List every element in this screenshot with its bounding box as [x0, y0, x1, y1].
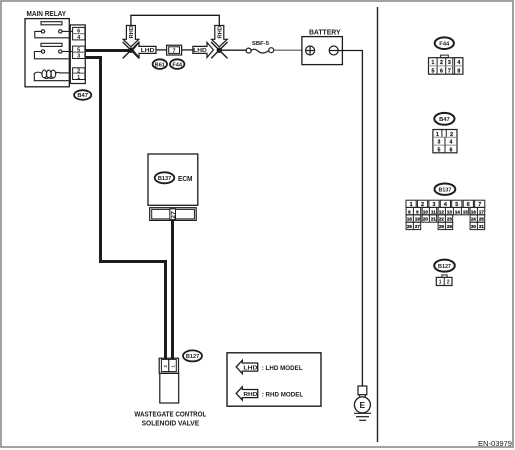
- svg-text:15: 15: [463, 209, 469, 214]
- svg-text:1: 1: [77, 75, 80, 81]
- wire upper-right terminal to pin 6: [62, 30, 73, 32]
- svg-text:13: 13: [447, 209, 453, 214]
- svg-text:24: 24: [471, 217, 477, 222]
- svg-text:2: 2: [77, 69, 80, 75]
- X crossing at junction B: [211, 42, 227, 58]
- pin cell 6: [73, 27, 85, 33]
- connector view B137 row1 cells 1-7: [406, 200, 485, 207]
- connector label oval B61: [153, 59, 167, 69]
- connector view F44 label oval: [435, 37, 454, 49]
- svg-text:2: 2: [447, 280, 450, 286]
- svg-text:4: 4: [457, 60, 460, 66]
- fusible link SBF-5: [246, 48, 251, 53]
- svg-text:19: 19: [415, 217, 421, 222]
- battery minus terminal: [329, 46, 338, 55]
- connector pin cell 2: [161, 359, 168, 371]
- relay contact bar (lower): [41, 43, 62, 46]
- connector view B127 label oval: [434, 260, 455, 272]
- svg-text:E: E: [360, 400, 366, 410]
- svg-text:17: 17: [479, 209, 485, 214]
- svg-text:F44: F44: [172, 62, 183, 68]
- svg-text:29: 29: [447, 224, 453, 229]
- svg-text:23: 23: [447, 217, 453, 222]
- svg-text:F44: F44: [439, 42, 450, 48]
- svg-text:28: 28: [439, 224, 445, 229]
- wire lower-right terminal to pin 5: [62, 51, 73, 53]
- svg-text:RHD: RHD: [129, 26, 135, 39]
- RHD arrow (right): [212, 26, 228, 47]
- svg-text:B127: B127: [186, 354, 199, 360]
- svg-text:10: 10: [423, 209, 429, 214]
- svg-text:3: 3: [438, 140, 441, 146]
- pin cell 1: [73, 73, 85, 79]
- X crossing at junction A: [123, 42, 139, 58]
- svg-text:B47: B47: [439, 117, 450, 123]
- svg-text:WASTEGATE CONTROL: WASTEGATE CONTROL: [134, 412, 207, 419]
- relay contact terminal circle (lower left): [41, 50, 44, 53]
- svg-text:B137: B137: [438, 187, 451, 193]
- B47 pin numbers 1-6: [436, 132, 453, 154]
- svg-text:5: 5: [431, 69, 434, 75]
- wire battery minus to ground: [338, 51, 362, 387]
- svg-text:30: 30: [471, 224, 477, 229]
- svg-text:7: 7: [172, 48, 175, 54]
- svg-text:LHD: LHD: [141, 48, 155, 54]
- svg-text:RHD: RHD: [218, 26, 224, 39]
- connector label oval B47: [74, 90, 91, 100]
- legend box: [227, 353, 321, 406]
- svg-text:EN-03979: EN-03979: [478, 441, 512, 448]
- pin cell 2: [73, 68, 85, 74]
- relay K1 body box: [25, 19, 69, 87]
- svg-text:8: 8: [457, 69, 460, 75]
- svg-text:6: 6: [440, 69, 443, 75]
- svg-text:31: 31: [479, 224, 485, 229]
- svg-text:LHD: LHD: [193, 48, 207, 54]
- RHD arrow (left): [123, 26, 139, 47]
- svg-text:3: 3: [448, 60, 451, 66]
- wire lower-left terminal to pin 3: [34, 52, 68, 59]
- wire junction B to fusible link SBF-5: [219, 49, 246, 51]
- ground circle E: [354, 397, 370, 413]
- svg-text:27: 27: [171, 211, 177, 219]
- connector view F44 body: [441, 55, 449, 58]
- relay contact terminal circle (lower right): [59, 50, 62, 53]
- svg-text:B61: B61: [155, 62, 165, 68]
- svg-text:LHD: LHD: [243, 365, 257, 371]
- wire SBF-5 to battery: [274, 49, 302, 51]
- coil lead to pin 2: [60, 72, 69, 74]
- battery BAT1 box: [302, 37, 343, 65]
- svg-text:12: 12: [439, 209, 445, 214]
- svg-text:: RHD MODEL: : RHD MODEL: [262, 391, 304, 398]
- svg-text:1: 1: [436, 132, 439, 138]
- gray separators in pin strip: [73, 34, 84, 74]
- wire ECM pin27 to solenoid (thick): [171, 220, 174, 359]
- svg-text:ECM: ECM: [178, 176, 193, 183]
- svg-text:B47: B47: [77, 93, 88, 99]
- svg-text:26: 26: [407, 224, 413, 229]
- B127 pin numbers: [439, 280, 450, 286]
- svg-text:3: 3: [77, 54, 80, 60]
- svg-text:MAIN RELAY: MAIN RELAY: [27, 9, 67, 18]
- svg-text:27: 27: [415, 224, 421, 229]
- svg-text:RHD: RHD: [243, 392, 257, 398]
- svg-text:SBF-5: SBF-5: [252, 41, 269, 47]
- svg-text:5: 5: [77, 47, 80, 53]
- relay contact terminal circle (upper left): [41, 30, 44, 33]
- connector view B47 body: [433, 130, 457, 153]
- wire upper-left terminal to pin 4: [35, 31, 68, 37]
- pin cell 4: [73, 34, 85, 40]
- relay contact bar (upper): [41, 22, 62, 25]
- connector view B47 label oval: [434, 113, 454, 125]
- svg-text:BATTERY: BATTERY: [309, 28, 341, 37]
- F44 pin numbers 1-8: [431, 60, 460, 74]
- LHD arrow (right, pointing right): [193, 42, 214, 57]
- pin cell 3: [73, 52, 85, 58]
- svg-text:5: 5: [438, 147, 441, 153]
- ground E terminal square: [358, 386, 367, 395]
- svg-text:25: 25: [479, 217, 485, 222]
- wire connector 7 to LHD arrow (right): [182, 49, 193, 51]
- svg-text:21: 21: [431, 217, 437, 222]
- relay coil: [34, 70, 59, 78]
- ECM U1 box: [148, 154, 198, 205]
- coil lead to pin 1 (bottom channel): [34, 74, 68, 81]
- svg-text:4: 4: [450, 140, 453, 146]
- junction B dot: [217, 48, 222, 53]
- wire LHD arrow to connector 7: [156, 49, 167, 51]
- ground hatching: [354, 412, 371, 414]
- svg-text:2: 2: [450, 132, 453, 138]
- legend RHD arrow: [236, 387, 258, 400]
- svg-text:SOLENOID VALVE: SOLENOID VALVE: [142, 420, 200, 427]
- connector label oval F44: [170, 59, 184, 69]
- LHD arrow (left, pointing left): [133, 42, 156, 57]
- svg-text:B127: B127: [438, 264, 451, 270]
- RHD bridge wire over connector 7: [131, 15, 219, 25]
- svg-text:20: 20: [423, 217, 429, 222]
- connector B47 pin strip outline: [70, 25, 85, 84]
- pin cell 5: [73, 46, 85, 52]
- divider line between schematic and connector views: [377, 7, 379, 442]
- svg-text:6: 6: [450, 147, 453, 153]
- solenoid valve connector housing: [159, 358, 178, 373]
- svg-text:22: 22: [439, 217, 445, 222]
- wire relay pin3 down to solenoid (thick): [85, 58, 165, 360]
- svg-text:: LHD MODEL: : LHD MODEL: [262, 365, 303, 372]
- svg-text:11: 11: [431, 209, 436, 214]
- battery plus terminal: [306, 46, 315, 55]
- connector view B137 label oval: [435, 184, 456, 195]
- legend LHD arrow: [236, 360, 258, 373]
- svg-text:1: 1: [439, 280, 442, 286]
- connector view B137 row4 cells 26-31: [406, 222, 485, 229]
- svg-text:1: 1: [431, 60, 434, 66]
- svg-text:6: 6: [77, 29, 80, 35]
- relay contact terminal circle (upper right): [59, 30, 62, 33]
- ECM connector strip: [150, 208, 197, 221]
- svg-text:14: 14: [455, 209, 461, 214]
- in-line connector 7 box: [167, 45, 182, 55]
- ground neck: [359, 395, 366, 398]
- svg-text:16: 16: [471, 209, 477, 214]
- wire relay pin5 to junction A (thick): [85, 49, 131, 52]
- connector label oval B137 (ECM): [155, 172, 175, 183]
- junction A dot: [128, 48, 133, 53]
- svg-text:B137: B137: [158, 176, 171, 182]
- connector view B137 row2 cells 8-17: [406, 207, 485, 214]
- svg-text:7: 7: [448, 69, 451, 75]
- svg-text:2: 2: [440, 60, 443, 66]
- connector pin cell 1: [169, 359, 177, 371]
- connector view B127 body: [442, 275, 447, 278]
- connector label oval B127 (valve): [183, 350, 202, 361]
- connector view B137 row3 cells 18-25: [406, 215, 485, 222]
- solenoid valve body: [160, 373, 179, 403]
- svg-text:18: 18: [407, 217, 413, 222]
